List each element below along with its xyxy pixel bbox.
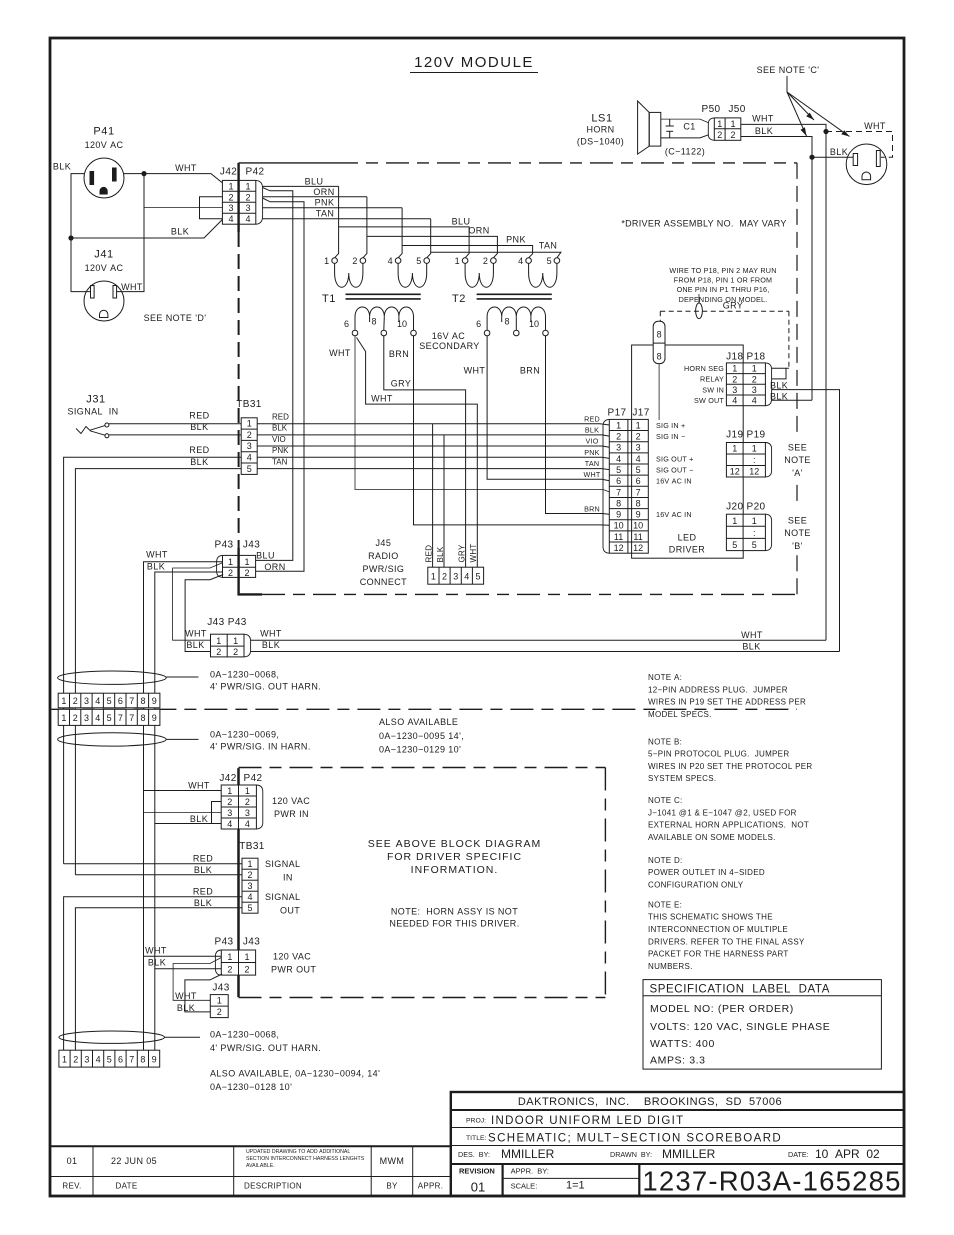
svg-text:INFORMATION.: INFORMATION. [411, 864, 499, 876]
note ALSO AVAILABLE [379, 717, 464, 755]
svg-text:1: 1 [227, 786, 232, 796]
svg-text:1: 1 [717, 119, 722, 129]
title: 120V MODULE [410, 54, 538, 73]
svg-text:3: 3 [752, 385, 757, 395]
connector J19 P19 [726, 430, 771, 478]
svg-text:ONE PIN IN P1 THRU P16,: ONE PIN IN P1 THRU P16, [677, 285, 770, 294]
connector J42 P42 (module 1) [220, 167, 265, 225]
svg-text:SCALE:: SCALE: [511, 1182, 538, 1191]
svg-text:P17: P17 [608, 408, 627, 419]
svg-text:RED: RED [193, 887, 213, 897]
svg-text:'B': 'B' [792, 541, 803, 551]
svg-text:DAKTRONICS, INC. BROOKINGS: DAKTRONICS, INC. BROOKINGS, SD 57006 [518, 1096, 782, 1108]
svg-text:1: 1 [752, 516, 757, 526]
svg-text:WHT: WHT [145, 946, 167, 956]
svg-text:2: 2 [717, 130, 722, 140]
svg-text:0A−1230−0129 10': 0A−1230−0129 10' [379, 744, 461, 754]
svg-text:3: 3 [227, 808, 232, 818]
svg-text:2: 2 [228, 568, 233, 578]
svg-text:WHT: WHT [464, 365, 486, 375]
svg-text:BLK: BLK [830, 147, 848, 157]
svg-text:1237-R03A-165285: 1237-R03A-165285 [642, 1166, 901, 1197]
svg-text:1: 1 [324, 256, 329, 266]
svg-text:BLK: BLK [53, 162, 71, 172]
wire horn to P50 pin1 [661, 119, 709, 123]
svg-text:WHT: WHT [371, 394, 393, 404]
wire RED TB31 pin4 to left rail [64, 457, 242, 863]
svg-text:4: 4 [247, 892, 252, 902]
svg-text:0A−1230−0068,: 0A−1230−0068, [210, 670, 279, 680]
svg-text:BY: BY [386, 1182, 398, 1191]
svg-text:J42: J42 [219, 773, 236, 784]
T2 primary winding pins 4,5 [518, 256, 560, 287]
capacitor C1 [666, 119, 696, 138]
svg-text:3: 3 [247, 441, 252, 451]
svg-text:120 VAC: 120 VAC [272, 796, 310, 806]
svg-text:APPR.: APPR. [418, 1182, 444, 1191]
note D [648, 856, 765, 890]
svg-text:DATE: DATE [116, 1182, 138, 1191]
svg-text:NOTE: NOTE [784, 455, 811, 465]
svg-text:BLK: BLK [436, 546, 445, 562]
svg-text:THIS SCHEMATIC SHOWS THE: THIS SCHEMATIC SHOWS THE [648, 913, 773, 922]
svg-text:7: 7 [636, 487, 641, 497]
svg-text:J50: J50 [728, 104, 745, 115]
svg-text:LS1: LS1 [591, 113, 612, 125]
svg-text:2: 2 [636, 432, 641, 442]
T1 primary winding pins 4,5 [388, 256, 430, 287]
svg-text:J43 P43: J43 P43 [207, 617, 247, 628]
svg-text:ALSO AVAILABLE, 0A−1230−0094,: ALSO AVAILABLE, 0A−1230−0094, 14' [210, 1069, 380, 1079]
wire stub below 8-connector [658, 364, 660, 420]
note SEE NOTE 'A' [784, 443, 811, 479]
svg-text:12−PIN ADDRESS PLUG. JUMPER: 12−PIN ADDRESS PLUG. JUMPER [648, 685, 788, 694]
svg-text:1: 1 [62, 1055, 67, 1065]
svg-text:DATE:: DATE: [788, 1150, 809, 1159]
svg-text:8: 8 [140, 713, 145, 723]
svg-text:0A−1230−0069,: 0A−1230−0069, [210, 729, 279, 739]
svg-text:BRN: BRN [520, 365, 540, 375]
connector J45 radio pwr/sig [360, 538, 484, 587]
svg-text:4: 4 [228, 214, 233, 224]
svg-text:J20: J20 [726, 501, 743, 512]
svg-text:9: 9 [152, 1055, 157, 1065]
svg-text:NOTE E:: NOTE E: [648, 900, 682, 909]
note SEE NOTE 'C' with leader arrows [757, 65, 850, 137]
svg-text:120 VAC: 120 VAC [273, 952, 311, 962]
svg-text:WIRES IN P19 SET THE ADDRESS P: WIRES IN P19 SET THE ADDRESS PER [648, 698, 806, 707]
wire BLK TB31 pin2 to P17 pin2 [257, 435, 609, 436]
svg-text:5: 5 [107, 1055, 112, 1065]
wire WHT T2 pin6 to P17 pin6 [487, 336, 609, 481]
wire BRN T1 pin10 to P17 pin10 [414, 336, 610, 526]
T1 secondary winding pins 6,8,10 [344, 307, 416, 336]
svg-text:1: 1 [431, 572, 436, 582]
svg-text:4: 4 [752, 396, 757, 406]
svg-text:1: 1 [245, 786, 250, 796]
svg-text:WHT: WHT [752, 113, 774, 123]
svg-text:16V AC IN: 16V AC IN [656, 510, 692, 519]
svg-text:2: 2 [442, 572, 447, 582]
wire BLK: P41 left prong down [71, 174, 91, 292]
wire WHT branch to J43P43 pin1 [173, 563, 223, 640]
wire VIO TB31 pin3 to P17 pin3 [257, 446, 609, 447]
wire WHT rail to J42-2 pin1 [144, 790, 222, 792]
svg-text:5: 5 [107, 713, 112, 723]
svg-text:4: 4 [227, 819, 232, 829]
svg-text:12: 12 [614, 543, 624, 553]
svg-text:120V AC: 120V AC [85, 263, 124, 273]
svg-text:REVISION: REVISION [459, 1167, 495, 1176]
wire BLK branch to J45 pin2 [443, 435, 445, 567]
harness leader (out) [166, 676, 198, 678]
svg-text:SIG OUT +: SIG OUT + [656, 454, 694, 463]
svg-text:CONFIGURATION ONLY: CONFIGURATION ONLY [648, 880, 744, 889]
wire to J42-2 pin3 [144, 812, 222, 814]
svg-text:1: 1 [228, 557, 233, 567]
svg-text:7: 7 [118, 713, 123, 723]
svg-text:1: 1 [247, 419, 252, 429]
svg-text:SEE NOTE 'D': SEE NOTE 'D' [144, 313, 207, 323]
svg-text:WHT: WHT [121, 282, 143, 292]
svg-text:RED: RED [584, 414, 600, 423]
svg-text:2: 2 [244, 965, 249, 975]
wire WHT dashed to outlet [826, 132, 893, 158]
svg-text:1: 1 [216, 636, 221, 646]
svg-text:WHT: WHT [260, 629, 282, 639]
svg-text:GRY: GRY [391, 378, 412, 388]
svg-text:NEEDED FOR THIS DRIVER.: NEEDED FOR THIS DRIVER. [389, 919, 519, 929]
svg-text:BLK: BLK [190, 457, 208, 467]
svg-text:7: 7 [129, 1055, 134, 1065]
note B [648, 737, 812, 783]
svg-text:SIG IN +: SIG IN + [656, 421, 685, 430]
wire P18 pin2 [772, 368, 786, 379]
svg-text:WHT: WHT [741, 630, 763, 640]
svg-text:DRIVERS. REFER TO THE FINAL AS: DRIVERS. REFER TO THE FINAL ASSY [648, 937, 805, 946]
svg-text:WHT: WHT [329, 348, 351, 358]
svg-text:SIGNAL: SIGNAL [265, 892, 300, 902]
svg-text:J−1041 @1 & E−1047 @2, USED FO: J−1041 @1 & E−1047 @2, USED FOR [648, 808, 797, 817]
svg-text:TAN: TAN [585, 459, 599, 468]
wire ORN drop to T1 pin2 and branch to T2 pin2 [363, 197, 498, 258]
receptacle outlet (note C) [846, 144, 887, 185]
svg-text:SYSTEM SPECS.: SYSTEM SPECS. [648, 774, 716, 783]
wire ORN from P42 pin2 [263, 196, 367, 198]
svg-text:1: 1 [732, 444, 737, 454]
svg-text:10: 10 [633, 521, 643, 531]
svg-text:6: 6 [118, 1055, 123, 1065]
svg-text:P18: P18 [747, 351, 766, 362]
svg-text:3: 3 [453, 572, 458, 582]
module 1 dashed boundary bottom [262, 593, 797, 595]
svg-text:J19: J19 [726, 430, 743, 441]
wire BLK branch to J43P43 pin2 [185, 575, 223, 652]
svg-text:C1: C1 [683, 122, 695, 132]
svg-text:120V AC: 120V AC [85, 140, 124, 150]
svg-text:DESCRIPTION: DESCRIPTION [244, 1182, 302, 1191]
svg-text:P50: P50 [702, 104, 721, 115]
wire WHT J50 pin1 to vertical [741, 124, 826, 640]
harness bundle ellipse (out) [58, 671, 167, 684]
junction dot BLK node [68, 235, 73, 240]
svg-text:3: 3 [245, 203, 250, 213]
svg-text:TAN: TAN [272, 457, 288, 466]
svg-text:GRY: GRY [723, 300, 744, 310]
svg-text:8: 8 [504, 317, 509, 327]
svg-text:PROJ:: PROJ: [466, 1118, 486, 1125]
svg-text:INTERCONNECTION OF MULTIPLE: INTERCONNECTION OF MULTIPLE [648, 925, 788, 934]
svg-text:WHT: WHT [146, 550, 168, 560]
note E [648, 900, 805, 971]
svg-text:DES. BY:: DES. BY: [458, 1150, 490, 1159]
svg-text:01: 01 [471, 1180, 485, 1195]
svg-text:8: 8 [140, 696, 145, 706]
svg-text:2: 2 [352, 256, 357, 266]
svg-text:BLK: BLK [171, 227, 189, 237]
wire GRY dashed to 8-connector and P18 [660, 311, 789, 368]
svg-text:J41: J41 [94, 249, 114, 261]
svg-text:ORN: ORN [468, 225, 489, 235]
svg-text:SW OUT: SW OUT [694, 396, 724, 405]
wire BLU from P42 pin1 [263, 185, 339, 187]
svg-text:RED: RED [189, 445, 209, 455]
svg-text:0A−1230−0095 14',: 0A−1230−0095 14', [379, 731, 464, 741]
svg-text:BRN: BRN [389, 349, 409, 359]
svg-text:3: 3 [228, 203, 233, 213]
connector J42 P42 (module 2) [219, 773, 262, 829]
LED driver box [632, 345, 744, 558]
svg-text:SIG IN −: SIG IN − [656, 432, 685, 441]
svg-text:NOTE: HORN ASSY IS NOT: NOTE: HORN ASSY IS NOT [391, 907, 518, 917]
note WIRE TO P18 [669, 266, 776, 304]
splice ellipse GRY [696, 303, 703, 319]
terminal block TB31 (module 2) [239, 841, 265, 913]
svg-text:CONNECT: CONNECT [360, 577, 407, 587]
connector J18 P18 [726, 351, 771, 405]
connector J31 signal in [67, 394, 118, 438]
svg-text:MMILLER: MMILLER [662, 1147, 716, 1161]
inline connector 8/8 [653, 321, 665, 363]
svg-text:4: 4 [518, 256, 523, 266]
svg-text:NOTE A:: NOTE A: [648, 673, 682, 682]
svg-text:WIRE TO P18, PIN 2 MAY RUN: WIRE TO P18, PIN 2 MAY RUN [669, 266, 776, 275]
wire WHT to P43 pin1 and rail down [144, 562, 223, 1050]
jumper J42-2 pin2 to pin4 [212, 802, 222, 824]
svg-text:RED: RED [424, 545, 433, 563]
svg-text:2: 2 [228, 192, 233, 202]
svg-text:BLK: BLK [742, 641, 760, 651]
svg-text:3: 3 [84, 696, 89, 706]
svg-text:4: 4 [732, 396, 737, 406]
module 1 dashed boundary top [239, 162, 335, 164]
svg-text:12: 12 [633, 543, 643, 553]
connector P43 J43 (module 2) [215, 937, 261, 976]
svg-text:1: 1 [752, 444, 757, 454]
svg-text:RED: RED [189, 411, 209, 421]
wire BLK J43P43 pin2 to right side [251, 651, 840, 653]
svg-text:GRY: GRY [457, 544, 466, 562]
svg-text:DRIVER: DRIVER [669, 545, 706, 555]
svg-text:4: 4 [245, 819, 250, 829]
wire P18 pin1 [772, 367, 789, 369]
svg-text:1: 1 [247, 859, 252, 869]
svg-text:OUT: OUT [280, 906, 300, 916]
svg-text:9: 9 [152, 696, 157, 706]
svg-text:BLK: BLK [190, 422, 208, 432]
wire BLK P18 pin3 to right vertical [772, 390, 840, 652]
svg-text:WATTS: 400: WATTS: 400 [650, 1038, 715, 1050]
svg-text:RED: RED [193, 854, 213, 864]
title block [451, 1092, 904, 1197]
svg-text:8: 8 [371, 317, 376, 327]
junction dot BLK outlet [809, 155, 814, 160]
svg-text:2: 2 [227, 797, 232, 807]
svg-text:P42: P42 [246, 167, 265, 178]
svg-text:1: 1 [245, 181, 250, 191]
svg-text:VOLTS: 120 VAC, SINGLE PHASE: VOLTS: 120 VAC, SINGLE PHASE [650, 1021, 830, 1033]
svg-text:J17: J17 [632, 408, 649, 419]
T2 secondary winding pins 6,8,10 [476, 307, 548, 336]
svg-text:WHT: WHT [175, 991, 197, 1001]
svg-text:22 JUN 05: 22 JUN 05 [111, 1156, 157, 1166]
svg-text:4: 4 [96, 1055, 101, 1065]
svg-text:BLK: BLK [770, 380, 788, 390]
svg-text:3: 3 [732, 385, 737, 395]
wire GRY T1 pin8 to J45 pin4 [384, 336, 466, 567]
wire BLK rail to J42-2 pin4 [155, 823, 221, 825]
wire BLK to outlet left prong [812, 156, 853, 158]
svg-text:IN: IN [283, 873, 293, 883]
svg-text:FROM P18, PIN 1 OR FROM: FROM P18, PIN 1 OR FROM [674, 276, 772, 285]
svg-text:7: 7 [129, 696, 134, 706]
svg-text:BLK: BLK [194, 898, 212, 908]
svg-text:2: 2 [730, 130, 735, 140]
svg-text:*DRIVER ASSEMBLY NO. MAY VARY: *DRIVER ASSEMBLY NO. MAY VARY [621, 219, 786, 229]
svg-text:VIO: VIO [586, 437, 599, 446]
connector J43 P43 (inter-module) [207, 617, 250, 657]
svg-text:4: 4 [636, 454, 641, 464]
svg-text:TB31: TB31 [239, 841, 265, 852]
svg-text:5: 5 [247, 903, 252, 913]
svg-text:7: 7 [616, 487, 621, 497]
svg-text:BLK: BLK [148, 958, 166, 968]
svg-text:SECONDARY: SECONDARY [419, 341, 479, 351]
svg-text:120V MODULE: 120V MODULE [414, 54, 534, 71]
svg-text:16V AC: 16V AC [432, 331, 466, 341]
svg-text:BLK: BLK [186, 640, 204, 650]
svg-text:1: 1 [732, 364, 737, 374]
svg-text:WHT: WHT [584, 470, 601, 479]
connector P17 J17 [603, 408, 650, 554]
svg-text:5−PIN PROTOCOL PLUG. JUMPER: 5−PIN PROTOCOL PLUG. JUMPER [648, 750, 789, 759]
svg-text:2: 2 [73, 696, 78, 706]
svg-text:RED: RED [272, 412, 289, 421]
svg-text:4' PWR/SIG. OUT HARN.: 4' PWR/SIG. OUT HARN. [210, 682, 321, 692]
svg-text:5: 5 [616, 465, 621, 475]
svg-text:T1: T1 [322, 293, 336, 305]
svg-text:2: 2 [247, 430, 252, 440]
wire PNK TB31 pin4 to P17 pin4 [257, 457, 609, 458]
svg-text:6: 6 [616, 476, 621, 486]
note SEE NOTE 'B' [784, 516, 811, 552]
svg-text:1: 1 [616, 420, 621, 430]
wire BLK TB31 pin5 to left rail [75, 469, 241, 875]
svg-text:4: 4 [388, 256, 393, 266]
svg-text:3: 3 [84, 713, 89, 723]
svg-text:VIO: VIO [272, 435, 286, 444]
svg-text:4' PWR/SIG. IN HARN.: 4' PWR/SIG. IN HARN. [210, 742, 311, 752]
junction dot WHT node [141, 171, 146, 176]
svg-text:SEE: SEE [788, 443, 807, 453]
svg-text:WHT: WHT [175, 163, 197, 173]
svg-text:HORN SEG: HORN SEG [684, 364, 724, 373]
svg-text:3: 3 [636, 443, 641, 453]
svg-text:LED: LED [678, 533, 697, 543]
junction dot WHT outlet [823, 129, 828, 134]
svg-text:PNK: PNK [315, 198, 335, 208]
wire PNK drop to T1 pin4 and branch to T2 pin4 [398, 208, 532, 258]
svg-text:6: 6 [344, 319, 349, 329]
svg-text:ALSO AVAILABLE: ALSO AVAILABLE [379, 717, 458, 727]
wire BLK to P43 pin2 and rail down [155, 572, 223, 1050]
svg-text:BLK: BLK [177, 1003, 195, 1013]
svg-text:FOR DRIVER SPECIFIC: FOR DRIVER SPECIFIC [387, 851, 522, 863]
svg-text:12: 12 [730, 467, 740, 477]
horn LS1 [577, 101, 661, 154]
svg-text:NOTE D:: NOTE D: [648, 856, 683, 865]
wire WHT vertical to J41 [117, 174, 144, 292]
harness bundle ellipse (module 2 out) [59, 1031, 165, 1043]
wire BLK TB31-2 pin5 to rail [75, 908, 242, 1050]
svg-text:SW IN: SW IN [702, 385, 724, 394]
svg-text:8: 8 [636, 498, 641, 508]
svg-text:8: 8 [616, 498, 621, 508]
svg-text:2: 2 [73, 1055, 78, 1065]
svg-text:2: 2 [245, 192, 250, 202]
harness connector row (out, pins 1-9) [58, 693, 160, 708]
svg-text:REV.: REV. [62, 1182, 81, 1191]
svg-text:3: 3 [245, 808, 250, 818]
svg-text:5: 5 [247, 464, 252, 474]
svg-text:SPECIFICATION LABEL DATA: SPECIFICATION LABEL DATA [650, 984, 830, 996]
svg-text:P43: P43 [215, 937, 234, 948]
svg-text:4: 4 [95, 696, 100, 706]
svg-text:3: 3 [616, 443, 621, 453]
svg-text:PNK: PNK [584, 448, 599, 457]
svg-text:NUMBERS.: NUMBERS. [648, 962, 693, 971]
note C [648, 796, 809, 842]
svg-text:WIRES IN P20 SET THE PROTOCOL: WIRES IN P20 SET THE PROTOCOL PER [648, 762, 812, 771]
svg-text:2: 2 [244, 568, 249, 578]
svg-text:PWR OUT: PWR OUT [271, 965, 316, 975]
svg-text:SEE NOTE 'C': SEE NOTE 'C' [757, 65, 820, 75]
svg-text:TITLE:: TITLE: [466, 1135, 487, 1142]
wire horn to P50 pin2 [661, 135, 709, 138]
connector P50 J50 [702, 104, 746, 140]
svg-text:INDOOR UNIFORM LED DIGIT: INDOOR UNIFORM LED DIGIT [491, 1115, 684, 1127]
svg-text:5: 5 [732, 540, 737, 550]
module 1 dashed boundary right [796, 163, 798, 595]
svg-text:4: 4 [616, 454, 621, 464]
svg-text:4: 4 [464, 572, 469, 582]
svg-text:1: 1 [730, 119, 735, 129]
svg-text:1: 1 [244, 952, 249, 962]
connector J43 (module 2) [210, 983, 229, 1018]
svg-text:WHT: WHT [469, 543, 478, 562]
svg-text:WHT: WHT [864, 121, 886, 131]
svg-text:APPR. BY:: APPR. BY: [511, 1167, 549, 1176]
